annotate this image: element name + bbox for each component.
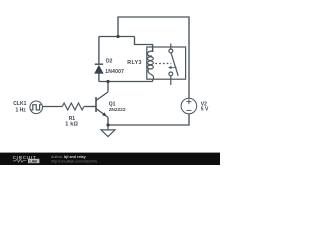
relay coil: [147, 47, 153, 79]
svg-text:LAB: LAB: [29, 159, 37, 163]
svg-text:CLK1: CLK1: [13, 101, 26, 107]
junction node at collector: [106, 80, 109, 83]
resistor R1: [62, 103, 84, 110]
wire coil bottom pin stub: [152, 79, 154, 81]
svg-text:1 Hz: 1 Hz: [16, 107, 27, 113]
wire diode-top node horizontal: [99, 36, 135, 38]
relay contact circle bottom (NO): [169, 72, 173, 76]
svg-text:RLY3: RLY3: [127, 60, 141, 66]
svg-text:D2: D2: [106, 59, 113, 65]
diode D2: [94, 64, 103, 73]
svg-text:1N4007: 1N4007: [105, 69, 124, 75]
junction node at emitter/ground: [106, 123, 109, 126]
svg-text:Q1: Q1: [109, 102, 116, 108]
relay RLY3 box: [147, 47, 186, 79]
relay contact circle top (common): [169, 49, 173, 53]
relay dashed actuator line: [155, 63, 171, 65]
relay actuator arrow line: [171, 67, 177, 69]
relay armature: [171, 53, 178, 76]
wire collector node horizontal: [99, 81, 153, 83]
svg-text:http://circuitlab.com/c6s2d7w: http://circuitlab.com/c6s2d7w: [51, 159, 98, 163]
wire diode cathode vertical: [98, 37, 100, 65]
wire top rail: V+ from node to V2: [118, 17, 189, 98]
wire bottom rail emitter to V2-: [108, 114, 189, 125]
footer bar: [0, 153, 220, 165]
wire diode anode vertical: [98, 74, 100, 82]
relay actuator arrowhead: [168, 66, 172, 69]
ground: [101, 125, 115, 137]
relay switch bottom pin stub: [170, 76, 172, 85]
voltage source V2: [181, 98, 197, 114]
footer logo LAB box: [28, 159, 39, 163]
svg-text:5 V: 5 V: [201, 107, 209, 113]
wire CLK1 to R1: [43, 106, 63, 108]
relay switch top pin stub: [170, 44, 172, 49]
wire collector lead: [107, 82, 109, 92]
wire R1 to Q1 base: [84, 106, 96, 108]
junction node at V+ rail: [116, 35, 119, 38]
svg-text:2N2222: 2N2222: [109, 107, 126, 113]
footer logo waveform: [13, 159, 26, 162]
wire step to relay coil top pin: [135, 37, 153, 53]
emitter arrow of Q1: [102, 112, 107, 116]
transistor Q1: [96, 92, 108, 117]
svg-text:1 kΩ: 1 kΩ: [65, 121, 78, 127]
clock source CLK1: [30, 101, 43, 114]
wire emitter lead: [107, 117, 109, 125]
svg-text:Author: bjt and relay: Author: bjt and relay: [51, 155, 87, 159]
